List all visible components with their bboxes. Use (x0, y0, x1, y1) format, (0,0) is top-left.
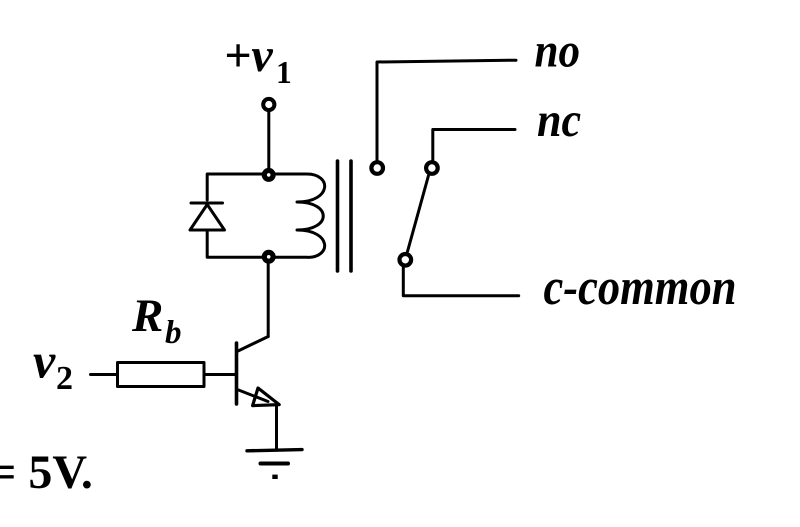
node coil bottom (264, 252, 273, 261)
ground bar 2 (261, 462, 289, 466)
svg-text:2: 2 (56, 360, 73, 397)
wire coil top to diode (207, 174, 265, 200)
wire no contact (377, 60, 516, 160)
terminal nc (426, 162, 438, 174)
wire coil bottom to collector (267, 261, 270, 337)
transistor Q1 emitter arrow (253, 388, 280, 406)
diode D1 triangle (190, 205, 225, 231)
svg-text:R: R (131, 290, 163, 342)
svg-text:+v: +v (224, 29, 273, 82)
svg-text:b: b (165, 315, 182, 351)
terminal no (371, 162, 383, 174)
transistor Q1 base bar (235, 343, 239, 404)
terminal +v1 (263, 99, 274, 110)
wire v2 lead (91, 373, 118, 376)
ground bar 1 (247, 450, 302, 451)
wire v1 terminal to coil top (267, 110, 270, 171)
diode D1 cathode bar (191, 202, 223, 205)
svg-text:v: v (33, 333, 56, 389)
switch arm wire (408, 176, 429, 252)
relay coil L1 (269, 174, 325, 257)
wire common contact (403, 268, 518, 296)
wire nc contact (433, 130, 515, 161)
wire resistor to base (204, 373, 237, 376)
ground dot (272, 475, 277, 479)
terminal common (400, 254, 412, 266)
svg-text:c-common: c-common (544, 259, 737, 316)
transistor Q1 emitter stroke (239, 390, 269, 402)
relay core line 2 (349, 161, 353, 271)
wire emitter to ground (275, 405, 278, 450)
svg-text:nc: nc (537, 93, 581, 148)
svg-text:= 5V.: = 5V. (0, 446, 93, 499)
node coil top (264, 171, 273, 180)
resistor Rb body (118, 363, 205, 387)
svg-text:no: no (535, 23, 581, 77)
transistor Q1 collector stroke (238, 337, 268, 352)
wire diode to coil bottom (207, 232, 265, 257)
svg-text:1: 1 (276, 55, 292, 90)
relay core line 1 (336, 161, 340, 271)
